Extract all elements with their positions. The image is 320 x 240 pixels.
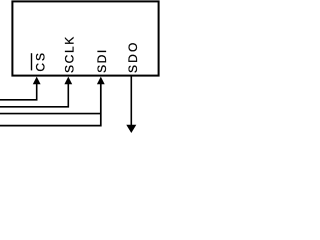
svg-text:CS: CS: [33, 51, 47, 72]
svg-text:SDO: SDO: [126, 41, 140, 73]
svg-text:SCLK: SCLK: [63, 35, 77, 73]
svg-text:SDI: SDI: [95, 48, 109, 73]
